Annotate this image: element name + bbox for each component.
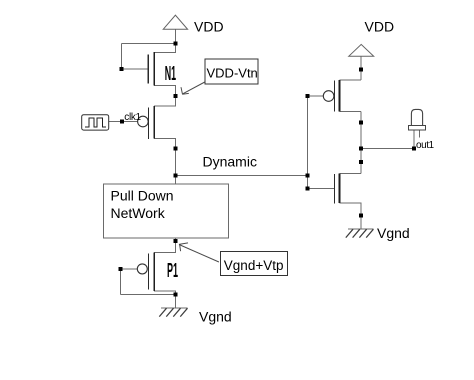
svg-text:out1: out1 xyxy=(416,140,435,151)
svg-text:VDD: VDD xyxy=(365,19,395,35)
svg-text:VDD-Vtn: VDD-Vtn xyxy=(207,65,258,80)
svg-text:Dynamic: Dynamic xyxy=(203,154,257,170)
svg-text:clk1: clk1 xyxy=(124,112,141,123)
svg-text:NetWork: NetWork xyxy=(111,205,166,221)
svg-text:P1: P1 xyxy=(167,260,178,282)
svg-text:VDD: VDD xyxy=(194,19,224,35)
svg-text:Pull Down: Pull Down xyxy=(111,188,174,204)
svg-text:Vgnd+Vtp: Vgnd+Vtp xyxy=(224,258,284,273)
svg-text:Vgnd: Vgnd xyxy=(199,309,232,325)
svg-text:Vgnd: Vgnd xyxy=(377,225,410,241)
svg-text:N1: N1 xyxy=(165,63,176,85)
